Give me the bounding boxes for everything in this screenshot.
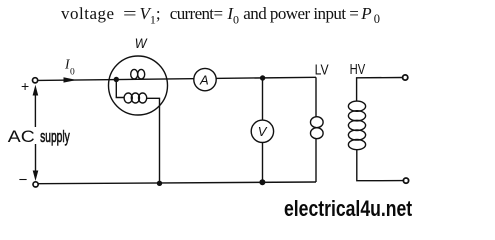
svg-text:+: + — [21, 78, 29, 94]
wire I0 current arrow — [64, 77, 77, 82]
svg-text:HV: HV — [350, 62, 366, 78]
ammeter A — [194, 68, 216, 90]
node junction wattmeter top — [114, 77, 119, 82]
wire AC supply voltage arrow lower — [35, 144, 37, 171]
svg-text:LV: LV — [315, 63, 329, 79]
wire top — [38, 77, 316, 80]
svg-text:A: A — [199, 73, 209, 88]
node - terminal — [33, 182, 38, 187]
node HV terminal bottom — [403, 178, 408, 183]
svg-text:AC: AC — [8, 127, 35, 146]
wattmeter pressure coil — [116, 80, 124, 98]
wire bottom — [38, 182, 316, 184]
node HV terminal top — [403, 75, 408, 80]
node junction voltmeter top — [260, 75, 265, 80]
watermark — [284, 196, 412, 222]
svg-text:W: W — [135, 35, 148, 51]
svg-text:−: − — [19, 172, 28, 189]
voltmeter V — [251, 120, 273, 142]
node junction wattmeter bottom — [157, 181, 162, 186]
wire AC supply voltage arrow upper — [34, 93, 36, 127]
wire LV branch bottom — [315, 138, 317, 182]
svg-text:supply: supply — [40, 127, 70, 146]
wire voltmeter branch — [262, 78, 264, 182]
inductor HV winding — [348, 101, 365, 111]
wire pressure coil to bottom — [147, 98, 160, 183]
svg-text:V: V — [258, 124, 268, 139]
node junction voltmeter bottom — [259, 179, 265, 185]
node + terminal — [33, 78, 38, 83]
wire LV branch top — [315, 77, 317, 117]
wire HV bottom — [357, 150, 404, 181]
wattmeter W circle — [109, 56, 168, 115]
wire HV top — [357, 78, 403, 102]
wattmeter current coil — [131, 69, 138, 79]
svg-text:0: 0 — [70, 68, 75, 78]
caption text — [0, 3, 1, 5]
inductor LV winding — [311, 117, 324, 128]
